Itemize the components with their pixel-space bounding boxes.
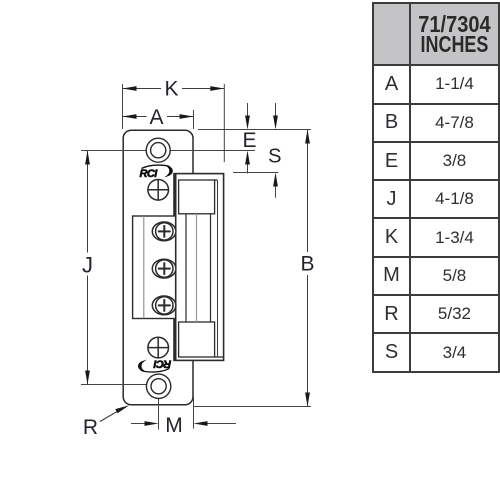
strike body (left, with screws) xyxy=(133,216,176,319)
svg-text:E: E xyxy=(242,129,256,152)
extension line: K/A left at faceplate edge xyxy=(122,84,124,129)
body screw 3 xyxy=(152,296,176,315)
svg-text:RCI: RCI xyxy=(140,168,159,180)
cavity inner right wall xyxy=(217,180,219,357)
extension line: M left (bottom hole center) xyxy=(158,399,160,430)
strike body inner line (gray) xyxy=(143,216,145,319)
bottom mounting hole xyxy=(146,374,170,398)
RCI logo bottom (rotated 180) xyxy=(138,357,171,372)
keeper bottom edge extension xyxy=(215,356,224,358)
extension line: faceplate top level (E/S/B) xyxy=(198,129,311,131)
svg-text:J: J xyxy=(82,253,93,278)
extension line: M right (faceplate edge) xyxy=(193,396,195,429)
dimension S arrows xyxy=(275,103,277,127)
keeper top edge extension xyxy=(215,179,217,181)
extension line: cavity top level (S) xyxy=(233,172,278,174)
body screw 2 xyxy=(152,259,176,278)
extension line: K right at cavity edge xyxy=(223,84,225,162)
dimension E arrows xyxy=(247,103,249,127)
keeper top block xyxy=(179,180,215,214)
keeper bottom block xyxy=(179,322,215,357)
dimension M xyxy=(131,423,155,425)
top mounting hole xyxy=(146,138,170,162)
body screw 1 xyxy=(152,222,176,241)
svg-text:K: K xyxy=(164,78,178,101)
bottom screw xyxy=(148,337,169,358)
faceplate xyxy=(123,130,193,405)
extension line: faceplate bottom level (B) xyxy=(194,406,311,408)
latch cavity box xyxy=(174,174,224,361)
dimension A xyxy=(123,116,194,118)
extension line: bottom hole centerline (J) xyxy=(81,384,146,386)
dimension J xyxy=(87,151,89,385)
latch channel line 1 xyxy=(185,214,187,322)
svg-text:A: A xyxy=(149,106,163,129)
dimension R (corner radius callout) xyxy=(100,408,124,422)
latch channel line 2 (gray) xyxy=(196,214,198,322)
dimension K xyxy=(123,88,225,90)
svg-text:R: R xyxy=(83,416,98,439)
dimension table 71/7304 xyxy=(372,2,500,373)
svg-text:M: M xyxy=(165,414,183,437)
svg-text:RCI: RCI xyxy=(153,357,172,369)
dimension B xyxy=(307,130,309,407)
svg-text:S: S xyxy=(268,146,281,168)
svg-text:B: B xyxy=(300,253,314,276)
latch channel line 3 xyxy=(210,214,212,322)
extension line: A right at faceplate edge xyxy=(193,110,195,129)
cavity left lip (thick edge) xyxy=(175,174,177,361)
extension line: top hole centerline (J/E) xyxy=(81,150,146,152)
top screw xyxy=(148,180,169,201)
RCI logo top xyxy=(140,165,173,180)
